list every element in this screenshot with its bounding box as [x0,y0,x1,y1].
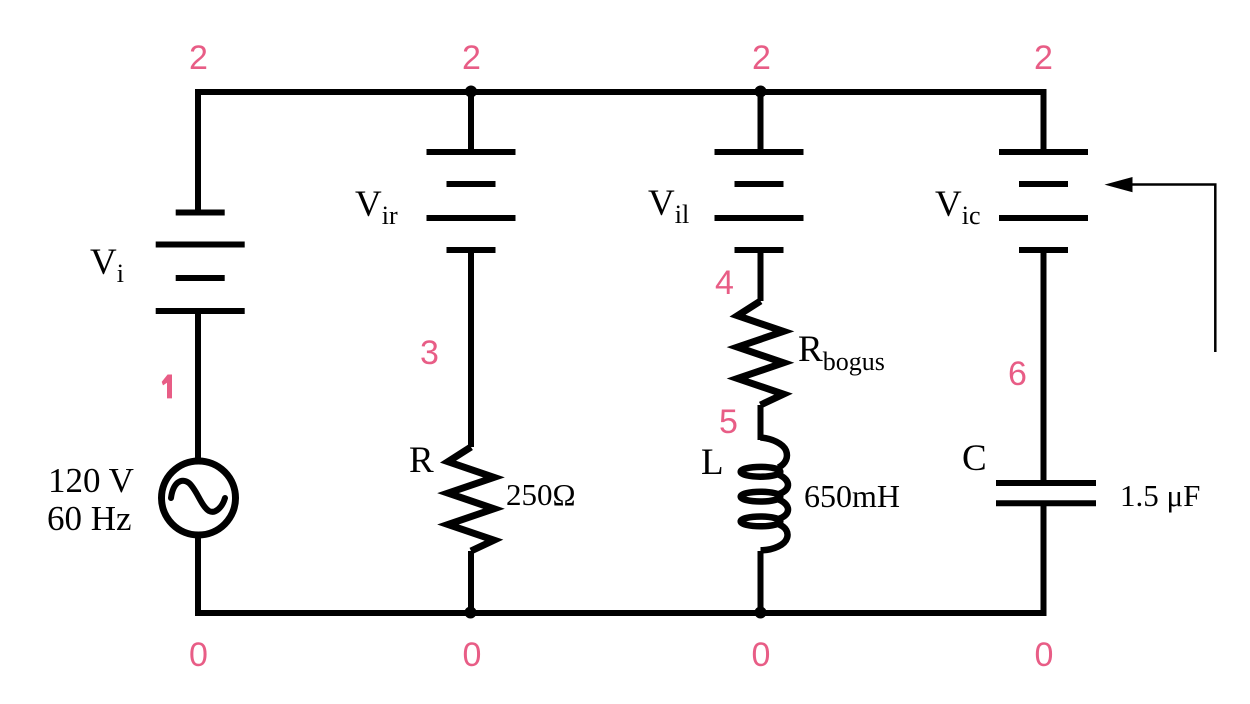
battery V_ir (long-short-long-short) [427,152,516,250]
svg-text:250Ω: 250Ω [506,477,576,512]
node label 1 [162,375,172,399]
svg-text:60 Hz: 60 Hz [47,499,132,538]
svg-text:Vil: Vil [648,183,689,229]
wire bottom rail with corner risers [198,503,1044,613]
junction node 0 dot at branch 2 [465,607,477,619]
svg-text:6: 6 [1008,355,1027,393]
wire top rail with left and right corner drops [198,92,1044,212]
resistor R zigzag [448,447,494,551]
svg-text:2: 2 [752,39,771,77]
svg-text:Vi: Vi [90,242,124,288]
svg-text:2: 2 [1034,39,1053,77]
battery V_il (long-short-long-short) [715,152,804,250]
svg-text:C: C [962,438,987,479]
current annotation arrow [1130,185,1215,353]
svg-text:0: 0 [463,636,482,674]
svg-text:120 V: 120 V [48,461,134,500]
svg-text:5: 5 [719,403,738,441]
svg-text:0: 0 [752,636,771,674]
wire branch2 top stub [468,92,474,152]
svg-text:1.5 μF: 1.5 μF [1120,478,1200,513]
svg-text:Vir: Vir [355,184,398,230]
AC source V circle [162,461,236,535]
resistor R_bogus zigzag [738,301,784,405]
svg-text:2: 2 [462,39,481,77]
capacitor C plates [996,483,1096,503]
wire branch1 source leads [195,311,201,460]
wire branch3 Rbogus-to-inductor [758,405,764,440]
svg-text:2: 2 [189,39,208,77]
wire branch2 battery-to-resistor [468,250,474,447]
wire branch3 battery-to-Rbogus [758,250,764,301]
svg-text:L: L [701,442,724,483]
svg-text:4: 4 [715,264,734,302]
AC source sine wave [171,481,225,512]
wire branch2 resistor-to-bottom [468,551,474,613]
battery V_i (short-long-short-long) [156,213,245,312]
battery V_ic (long-short-long-short) [999,152,1088,250]
wire branch3 inductor-to-bottom [758,551,764,613]
junction node 2 dot at branch 3 [755,86,767,98]
svg-text:R: R [409,440,434,481]
svg-text:3: 3 [420,334,439,372]
svg-text:Vic: Vic [935,184,981,230]
wire branch4 battery-to-capacitor [1041,250,1047,483]
junction node 0 dot at branch 3 [755,607,767,619]
svg-text:0: 0 [1035,636,1054,674]
svg-text:650mH: 650mH [804,478,900,514]
junction node 2 dot at branch 2 [465,86,477,98]
wire branch3 top stub [758,92,764,151]
svg-text:Rbogus: Rbogus [798,329,885,376]
inductor L coil [741,438,788,551]
svg-text:0: 0 [189,636,208,674]
